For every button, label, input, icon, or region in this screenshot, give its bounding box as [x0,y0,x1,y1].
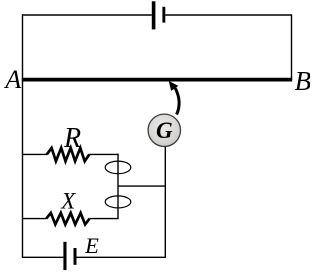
battery E long plate [63,242,66,270]
wire: middle tap to galvanometer branch [118,185,165,187]
plug key gap ellipse 2 [105,196,131,208]
wire: bottom right segment to galvanometer branch [77,256,166,258]
jockey arrowhead [169,81,179,91]
battery (top driver cell) short plate [162,7,165,23]
svg-text:E: E [84,233,99,258]
svg-text:G: G [156,118,173,143]
wire: X branch right lead [90,218,119,220]
battery E short plate [74,248,77,265]
wire: X branch left lead [23,218,47,220]
resistor X zigzag [46,213,89,225]
resistor R zigzag [47,148,90,161]
wire: right vertical (top to B) [291,14,293,79]
wire: left vertical (A to bottom) [22,14,24,257]
wire: top right segment from battery [165,14,291,16]
wire: vertical connector through keys [117,154,119,219]
plug key gap ellipse 1 [105,161,131,174]
wire: galvanometer vertical down [164,147,166,257]
jockey curved arrow shaft [175,88,179,115]
svg-text:X: X [60,189,76,214]
svg-text:R: R [63,123,81,154]
wire: bottom left segment to battery E [22,256,64,258]
wire: top left segment to battery [23,14,152,16]
wire: R branch left lead [23,153,48,155]
galvanometer U1 body [148,114,180,146]
svg-text:B: B [295,66,310,96]
thick slide wire A-B [22,78,292,82]
wire: R branch right lead [89,153,118,155]
svg-text:A: A [3,65,21,94]
battery (top driver cell) long plate [152,1,156,29]
